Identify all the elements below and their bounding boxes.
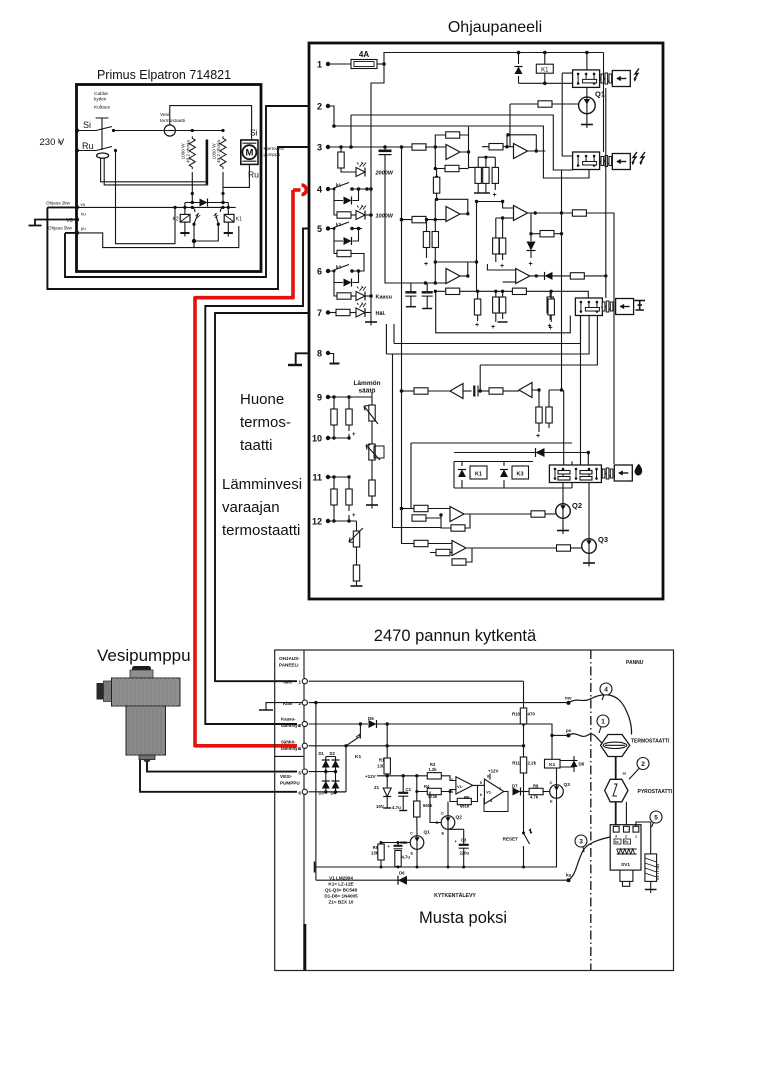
SV1 block (610, 825, 641, 870)
capacitor pair C (411, 283, 427, 292)
wire heater1 down (191, 172, 193, 203)
relay K2 coil (184, 203, 186, 234)
wire second lead (625, 802, 627, 827)
op-amp D (514, 144, 528, 159)
ground rail bottom (365, 321, 377, 323)
svg-text:D6: D6 (399, 871, 405, 876)
op-amp V1b (478, 784, 485, 786)
thick bar conductor (206, 140, 209, 185)
Q1 ground (586, 114, 588, 125)
row I resistors (402, 509, 415, 544)
wire mid bus (116, 151, 176, 244)
op-amp A (425, 146, 446, 148)
svg-text:Rv: Rv (624, 840, 628, 844)
svg-text:49.2 ohmia: 49.2 ohmia (185, 140, 190, 163)
node vo (75, 217, 79, 221)
svg-text:ka: ka (566, 873, 572, 878)
svg-text:mv: mv (565, 696, 572, 701)
bundle row 4 (480, 316, 597, 392)
svg-text:220u: 220u (460, 851, 470, 856)
Q3 collector (588, 483, 590, 539)
relay K1b box (470, 466, 487, 479)
vertical resistor pair G2 (539, 390, 549, 407)
bottom box column divider (303, 650, 305, 971)
ground trimmer chain (366, 504, 378, 506)
pyrostaatti hexagon (605, 779, 628, 802)
resistor R4 (417, 776, 428, 792)
svg-text:termos-: termos- (240, 414, 291, 431)
wire Ohjaus2kw to panel t3 (47, 147, 309, 289)
svg-text:13k: 13k (371, 851, 379, 856)
svg-text:4.7k: 4.7k (530, 795, 539, 800)
svg-text:Primus Elpatron 714821: Primus Elpatron 714821 (97, 68, 231, 82)
pump left nozzle (104, 681, 112, 702)
svg-text:+: + (529, 261, 533, 268)
diode between relays (185, 202, 228, 204)
svg-text:1.2k: 1.2k (428, 767, 437, 772)
op-amp C feedback (435, 262, 476, 275)
switch Ru (77, 147, 112, 151)
wire bt3 + diode D6 (309, 723, 368, 725)
capacitor C2 + resistor (397, 843, 399, 846)
circled 1 (597, 715, 609, 727)
lightning 1 (634, 69, 639, 82)
svg-text:+: + (475, 322, 479, 329)
bundle row 3 (386, 316, 589, 355)
diode k2 (334, 229, 359, 242)
svg-text:pv: pv (566, 728, 572, 733)
svg-text:K1: K1 (549, 762, 555, 768)
svg-text:M: M (245, 148, 253, 159)
capacitor at t3 (384, 147, 386, 151)
svg-text:va: va (81, 202, 86, 207)
svg-text:VESI-: VESI- (280, 774, 292, 779)
row H resistors (402, 508, 415, 510)
svg-text:Lämminvesi: Lämminvesi (222, 476, 302, 493)
svg-text:D6: D6 (368, 716, 374, 721)
circled 2 (637, 758, 649, 770)
svg-text:1: 1 (317, 60, 322, 70)
relay K1 contact (221, 206, 224, 209)
sytytin resistor (645, 854, 657, 882)
wire thermostat down (615, 757, 617, 780)
SV1 bottom stub (620, 870, 633, 881)
svg-text:taatti: taatti (240, 437, 273, 454)
wire fuse down long vertical (371, 64, 384, 322)
svg-text:kytkin: kytkin (94, 97, 107, 103)
svg-text:E: E (411, 851, 414, 856)
arrow box 4 (614, 465, 632, 481)
resistor row below C (435, 290, 445, 292)
svg-text:OHJAUS-: OHJAUS- (279, 656, 300, 661)
svg-text:10: 10 (312, 434, 322, 444)
svg-text:Kultaus: Kultaus (94, 105, 111, 111)
wire Si to thermostat (114, 130, 165, 132)
Q3 base resistor (557, 545, 571, 551)
svg-text:Kias: Kias (283, 701, 293, 706)
svg-text:10V: 10V (376, 804, 384, 809)
svg-text:R5: R5 (464, 795, 470, 800)
resistor row G2 (489, 388, 503, 394)
svg-text:6: 6 (317, 267, 322, 277)
svg-text:9: 9 (317, 393, 322, 403)
diode D8 (560, 761, 574, 768)
K relay sub-box (411, 443, 572, 509)
svg-text:+: + (549, 325, 553, 332)
wire bt4 (309, 745, 524, 747)
op-amp I (452, 541, 466, 556)
svg-text:R3: R3 (430, 762, 436, 767)
svg-text:C: C (441, 811, 444, 816)
feedback resistor H (441, 518, 451, 528)
svg-text:+: + (493, 192, 497, 199)
Primus outer box (77, 85, 262, 272)
bus rail y126 (334, 126, 589, 178)
svg-text:1: 1 (635, 835, 637, 839)
feedback loop V1b (484, 792, 508, 812)
svg-text:E: E (550, 799, 553, 804)
svg-text:Q1: Q1 (424, 830, 431, 836)
svg-text:PUMPPU: PUMPPU (280, 781, 300, 786)
svg-text:2.2k: 2.2k (528, 761, 537, 766)
svg-text:PANNU: PANNU (626, 660, 644, 666)
svg-text:+: + (352, 432, 356, 438)
resistor row A (412, 144, 426, 150)
svg-text:C: C (410, 831, 413, 836)
va rail (77, 206, 236, 208)
column separator line (275, 755, 304, 757)
svg-text:3: 3 (298, 723, 301, 729)
svg-text:Lämmön: Lämmön (353, 380, 380, 387)
opamp A output (460, 152, 482, 167)
diode D5 on ka (398, 876, 407, 885)
svg-text:4,7u: 4,7u (402, 855, 411, 860)
t9 t10 resistor pair (328, 397, 349, 409)
accordion 3 (601, 301, 613, 312)
vertical resistor pair below B (427, 220, 436, 232)
switch k3 (330, 265, 349, 272)
wire Ohjaus5kw to panel t2 (65, 106, 309, 277)
svg-text:K1: K1 (475, 472, 482, 478)
pump left nozzle dark (97, 683, 104, 700)
svg-text:Musta poksi: Musta poksi (419, 909, 507, 927)
svg-text:2: 2 (298, 701, 301, 707)
svg-text:1000W: 1000W (376, 214, 394, 220)
Q3b emitter to bus (554, 798, 556, 867)
svg-text:Z1: Z1 (374, 785, 380, 790)
svg-text:1: 1 (298, 680, 301, 686)
svg-text:Z1= BZX 10: Z1= BZX 10 (329, 900, 354, 905)
vertical resistor below row (477, 291, 479, 299)
vertical resistor below A (436, 169, 438, 178)
relay coil K1 top (536, 64, 553, 73)
arrow box 2 (612, 154, 630, 170)
wire relay1 left drop (562, 73, 572, 156)
wire contacts bottom (194, 224, 218, 241)
svg-text:11: 11 (312, 473, 322, 483)
terminal b2 stub (266, 703, 302, 710)
svg-text:5: 5 (298, 771, 301, 777)
svg-text:1: 1 (601, 719, 605, 726)
wire right long vertical (603, 53, 605, 153)
resistor row B (412, 216, 426, 222)
Q2 ground (562, 518, 564, 530)
sytytin ground (650, 881, 652, 889)
svg-text:49.2 ohmia: 49.2 ohmia (216, 140, 221, 163)
svg-text:TERMOSTAATTI: TERMOSTAATTI (631, 739, 670, 745)
op-amp H (450, 507, 464, 522)
svg-text:C3: C3 (461, 838, 467, 843)
Q2b wires (447, 802, 449, 816)
trimmer t12 (356, 521, 358, 531)
svg-text:Q3: Q3 (598, 535, 608, 544)
svg-text:+: + (352, 513, 356, 519)
wire heater2 down (222, 172, 224, 203)
capacitor G (463, 390, 472, 392)
switch k2 (330, 222, 349, 229)
relay contact block 3 (575, 298, 602, 316)
svg-text:2000W: 2000W (375, 171, 394, 177)
accordion 4 (601, 468, 613, 479)
svg-text:3: 3 (579, 839, 583, 846)
svg-text:2470 pannun kytkentä: 2470 pannun kytkentä (374, 627, 537, 645)
svg-text:E: E (442, 831, 445, 836)
svg-text:661k: 661k (423, 803, 433, 808)
panel outer box (309, 43, 663, 599)
op-amp E output row (528, 212, 573, 214)
accordion 1 (600, 73, 612, 84)
thermostat symbol (601, 735, 630, 757)
svg-text:+: + (491, 324, 495, 331)
relay contact block 1 (573, 70, 600, 88)
feedback R5 (471, 785, 477, 801)
svg-text:Säh.: Säh. (283, 680, 292, 685)
wire bt5 (309, 771, 336, 773)
svg-text:4: 4 (317, 185, 322, 195)
resistor R9 13k (378, 844, 384, 860)
wire K1 bottom row (519, 82, 573, 84)
svg-text:C: C (550, 780, 553, 785)
fuse 4A (328, 63, 351, 65)
svg-text:+12V: +12V (365, 774, 376, 779)
svg-text:K3: K3 (516, 472, 523, 478)
vertical resistor left of relay3 (550, 291, 552, 299)
svg-text:termostaatti: termostaatti (160, 118, 185, 124)
capacitor C3 (448, 829, 464, 844)
op-amp V1a (456, 777, 473, 794)
svg-text:5: 5 (654, 815, 658, 822)
svg-text:pu: pu (81, 226, 86, 231)
arrow box 1 (612, 71, 630, 87)
double lightning 2 (632, 152, 637, 165)
resistor R1 (386, 724, 388, 758)
resistor R8 (529, 788, 543, 794)
ground bus (315, 866, 555, 868)
node va (75, 205, 79, 209)
bus rail y115 (351, 115, 573, 170)
Q1b base wire (381, 843, 410, 845)
svg-text:hv: hv (615, 840, 619, 844)
wire t3 to rail115 (350, 115, 352, 147)
wire thermostat to heaters (175, 130, 223, 132)
pump main body (112, 678, 181, 706)
svg-text:Si: Si (250, 128, 258, 138)
svg-text:+: + (424, 261, 428, 268)
resistor R10 (523, 681, 525, 708)
op-amp C (410, 262, 446, 283)
wire t2 to rail (328, 106, 334, 126)
svg-text:2: 2 (625, 835, 627, 839)
resistor R3 (427, 773, 441, 779)
svg-text:3: 3 (317, 143, 322, 153)
op-amp B feedback loop (435, 199, 468, 213)
wire fuse out (377, 63, 384, 65)
svg-text:termostaatti: termostaatti (222, 522, 300, 539)
bottom box outer (275, 650, 674, 971)
svg-text:Vesi: Vesi (160, 112, 169, 118)
svg-text:Ohjaus 5kw: Ohjaus 5kw (48, 226, 73, 231)
svg-text:Q2: Q2 (456, 815, 463, 821)
svg-text:V1 LM2904: V1 LM2904 (329, 876, 353, 881)
svg-text:SYTYTIN: SYTYTIN (656, 864, 660, 880)
svg-text:473k: 473k (428, 794, 438, 799)
wire pump to bottom t6 (140, 759, 297, 792)
resistor LED row Hal (328, 312, 336, 314)
svg-text:8: 8 (317, 349, 322, 359)
svg-text:Q2: Q2 (572, 501, 582, 510)
op-amp B (446, 207, 460, 222)
switch Si (77, 127, 112, 131)
switch link bar (96, 118, 109, 150)
bundle row 2 (394, 316, 581, 344)
mid box bottom line (436, 291, 571, 333)
wire motor bottom (223, 164, 249, 187)
Q3b collector to K1 coil (556, 768, 558, 785)
op-amp G2 left (519, 383, 532, 398)
squiggle ka to SV1 (569, 837, 611, 880)
svg-text:R10: R10 (512, 712, 521, 717)
radiator icon 3 (635, 301, 646, 311)
svg-text:PANEELI: PANEELI (279, 663, 299, 668)
resistor LED row 1000W (334, 201, 337, 216)
wire F row to relay3 (553, 275, 571, 277)
svg-text:4: 4 (298, 746, 301, 752)
svg-text:R4: R4 (424, 784, 430, 789)
wire top loop to motor (170, 106, 252, 140)
motor box (241, 140, 258, 164)
pump lower body (126, 706, 166, 755)
resistor R11 (523, 746, 525, 757)
wire resistor to LED 2000W (341, 168, 356, 172)
wire to op-amp E (477, 202, 514, 209)
wire bt6 (309, 791, 346, 793)
svg-text:D8: D8 (579, 762, 585, 767)
svg-text:Ohjaus 2kw: Ohjaus 2kw (46, 201, 71, 206)
wire top rail (384, 53, 604, 65)
terminal 8 stub outside (296, 353, 309, 364)
circled 4 (600, 683, 612, 695)
ka wire (316, 879, 569, 881)
squiggle pv to thermostat (569, 734, 603, 743)
wire D top (507, 135, 536, 147)
overload oval (97, 153, 109, 158)
Q3 ground (588, 553, 590, 563)
transistor Q3b (550, 785, 564, 799)
svg-text:5: 5 (317, 224, 322, 234)
svg-text:K1: K1 (355, 754, 361, 760)
resistor row below F (512, 288, 526, 294)
svg-text:Q3: Q3 (564, 782, 571, 788)
transistor Q2 (556, 504, 571, 519)
svg-text:R1: R1 (379, 758, 385, 763)
wire bt1 (309, 680, 524, 682)
svg-text:K1: K1 (541, 68, 549, 74)
transistor Q2b (441, 816, 455, 830)
resistor row D input (489, 144, 503, 150)
svg-text:12: 12 (312, 517, 322, 527)
svg-text:ai: ai (623, 771, 626, 776)
feedback resistor I (452, 548, 472, 562)
heater resistor 1000W right (220, 136, 226, 169)
svg-text:Vesipumppu: Vesipumppu (97, 646, 191, 665)
thermostat circle (164, 125, 175, 136)
svg-text:k1: k1 (336, 183, 342, 188)
LED 2000W (356, 162, 366, 177)
diode k1 (334, 189, 359, 201)
vertical resistor right F (549, 291, 551, 297)
diode D7 (504, 791, 509, 793)
Q1b collector from 661k (416, 817, 418, 836)
svg-text:681k: 681k (460, 804, 470, 809)
Q1b emitter (416, 849, 418, 867)
svg-text:Cablar: Cablar (94, 91, 109, 97)
vertical resistor pair below F (496, 291, 503, 297)
svg-text:R11: R11 (512, 761, 520, 766)
svg-text:6: 6 (298, 791, 301, 797)
svg-text:Si: Si (83, 120, 91, 130)
switch k1 (330, 183, 349, 190)
LED cathode rail (369, 187, 373, 191)
K cluster box (454, 462, 572, 489)
wire double from oval (101, 158, 209, 185)
svg-text:k2: k2 (336, 222, 342, 227)
flame icon 4 (635, 464, 643, 476)
circled 5 (650, 811, 662, 823)
resistor pair below E (496, 218, 503, 238)
wire panel t7 to bottom t1 (215, 313, 309, 681)
svg-text:D1-D8= 1N4005: D1-D8= 1N4005 (324, 894, 358, 899)
svg-text:nu: nu (81, 212, 86, 217)
ground under K2 (180, 232, 189, 234)
transistor Q1b (410, 836, 424, 850)
relay contact block 4 wide (549, 465, 601, 483)
svg-text:RESET: RESET (503, 837, 519, 842)
pump top knob (132, 666, 151, 672)
svg-text:k3: k3 (336, 265, 342, 270)
wire pump to bottom t5 (147, 759, 297, 772)
t11 t12 resistor pair (328, 477, 349, 489)
svg-text:R9: R9 (373, 845, 379, 850)
svg-text:∞: ∞ (58, 137, 63, 146)
wire pyrostaatti down (615, 802, 617, 827)
wire pv branch (552, 734, 569, 736)
svg-text:K1: K1 (236, 217, 242, 223)
resistor 661k vertical (416, 792, 418, 802)
diode K1b (461, 462, 463, 489)
relay contact K1b (346, 724, 360, 746)
accordion 2 (600, 156, 612, 167)
svg-text:KYTKENTÄLEVY: KYTKENTÄLEVY (434, 892, 476, 899)
